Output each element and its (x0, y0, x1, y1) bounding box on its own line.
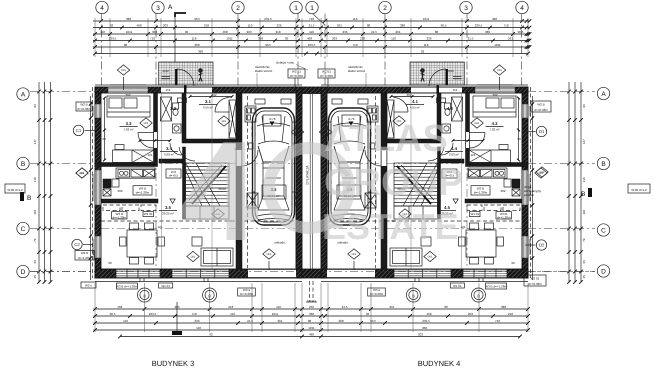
axis bubble 8 bottom (472, 288, 486, 302)
svg-text:D01: D01 (497, 69, 502, 72)
svg-text:D01: D01 (428, 256, 433, 259)
section mark A bottom (172, 302, 182, 335)
left dimension chain (33, 82, 52, 284)
window sill top wall b3 (110, 84, 146, 86)
svg-text:dylatacja: dylatacja (307, 300, 317, 303)
building BUDYNEK 3 (left) (76, 62, 304, 282)
svg-text:88: 88 (308, 319, 312, 323)
svg-text:d=+1.28m: d=+1.28m (474, 191, 488, 195)
svg-text:302: 302 (211, 93, 216, 97)
svg-text:4.2: 4.2 (447, 106, 453, 111)
svg-text:90: 90 (511, 261, 515, 265)
wardrobe closet b4 (387, 100, 394, 138)
svg-text:3.3: 3.3 (126, 121, 132, 126)
svg-text:7.02 m²: 7.02 m² (123, 128, 133, 132)
window marker O2 (526, 240, 547, 250)
svg-text:302: 302 (492, 93, 497, 97)
svg-text:1011: 1011 (494, 43, 501, 47)
window glazing top wall b4 (475, 88, 515, 90)
svg-text:pawilon: pawilon (524, 193, 535, 197)
garage door opening b4 (327, 269, 375, 278)
garage door opening b3 (248, 269, 296, 278)
svg-text:4: 4 (180, 112, 259, 271)
svg-text:-0.76: -0.76 (269, 117, 276, 121)
label box (76, 102, 92, 111)
shower b4 (452, 97, 463, 121)
garage storage box b3 (247, 193, 258, 208)
svg-text:BUDYNEK 3: BUDYNEK 3 (152, 359, 195, 368)
interior dim line bedroom b4 (518, 98, 520, 160)
kitchen hob b4 (469, 170, 480, 178)
room label 4.5 (438, 205, 456, 216)
label box (450, 283, 464, 288)
door swing bath b3 (170, 143, 182, 155)
svg-text:W2 e: W2 e (85, 284, 92, 288)
leader line oswietlenie left (256, 73, 258, 87)
svg-text:d=+1.28m: d=+1.28m (497, 215, 511, 219)
door swing bath b4 (441, 143, 453, 155)
door swing room 3.1 b3 (215, 98, 230, 113)
bottom extension lines (95, 283, 528, 332)
interior dim line corridor b3 (140, 140, 170, 142)
svg-text:DYLATACJA: DYLATACJA (306, 165, 310, 185)
svg-text:718: 718 (495, 319, 500, 323)
window glazing left wall b3 (96, 104, 98, 118)
room label 4.1 (406, 99, 424, 110)
sofa b4 (390, 248, 422, 266)
svg-text:110: 110 (123, 319, 128, 323)
porch step lines b3 (162, 76, 171, 78)
svg-text:388: 388 (501, 305, 506, 309)
svg-text:A: A (601, 91, 606, 98)
axis D overlay across garage doors (30, 271, 595, 273)
svg-text:236: 236 (194, 319, 199, 323)
axis bubble 8 bottom (138, 288, 152, 302)
car b4 (325, 108, 375, 225)
window opening left wall b3 (96, 104, 101, 118)
person figure b4 (421, 69, 425, 82)
svg-text:21.5: 21.5 (468, 36, 474, 40)
expansion joint dashed below (309, 281, 311, 302)
svg-text:468: 468 (426, 312, 431, 316)
svg-text:4.4: 4.4 (451, 146, 457, 151)
door marker diamond D01 b3 (212, 209, 224, 219)
exterior wall top b4 (321, 87, 528, 93)
window sill marks b3 (139, 278, 141, 282)
svg-text:110: 110 (391, 36, 396, 40)
kitchen wall b3 (101, 199, 158, 203)
party wall bridge bottom (302, 269, 321, 278)
door swing corridor b4 (428, 147, 444, 161)
insulation outline b3 (95, 84, 302, 86)
svg-text:110: 110 (33, 209, 37, 214)
stairs handrail b3 (192, 166, 226, 204)
svg-text:21.5: 21.5 (309, 23, 315, 27)
toilet b4 (445, 103, 451, 109)
grid bubble B right (597, 157, 609, 169)
svg-text:3.00 m²: 3.00 m² (449, 153, 459, 157)
upper cabinets dashed b4 (503, 205, 520, 211)
svg-text:A: A (21, 91, 26, 98)
svg-text:35: 35 (582, 275, 586, 279)
grid bubble 2 top x238 (232, 1, 244, 13)
door marker diamond W1 b4 (535, 168, 547, 178)
section mark A top (168, 4, 186, 17)
svg-text:388: 388 (485, 30, 490, 34)
svg-text:d=+0.38m: d=+0.38m (240, 292, 254, 296)
shower b3 (161, 97, 172, 121)
window glazing top wall b3 (108, 88, 148, 90)
svg-text:718: 718 (191, 312, 196, 316)
interior wall hall bottom b3 (159, 159, 185, 163)
svg-text:147: 147 (582, 139, 586, 144)
wheel stoppers b3 (255, 99, 265, 104)
svg-text:261: 261 (277, 319, 282, 323)
svg-text:468: 468 (307, 36, 312, 40)
svg-text:ATLAS: ATLAS (324, 118, 448, 160)
door swing bedroom b3 (138, 133, 154, 149)
svg-text:d=+0.5: d=+0.5 (169, 174, 179, 178)
svg-text:d=+0.38m: d=+0.38m (370, 292, 384, 296)
entry door leaf b3 (175, 69, 177, 86)
svg-text:90: 90 (102, 137, 106, 141)
svg-text:90: 90 (108, 261, 112, 265)
svg-text:121: 121 (147, 153, 152, 157)
beam dashed line right (327, 220, 522, 222)
svg-text:izolacja +ciep.: izolacja +ciep. (276, 61, 295, 65)
grid bubble A right (597, 87, 609, 99)
svg-text:C2: C2 (74, 242, 80, 247)
section mark B right (581, 188, 592, 198)
svg-text:D01: D01 (80, 172, 85, 175)
svg-text:302: 302 (500, 189, 505, 193)
label box (75, 251, 94, 261)
svg-text:1011: 1011 (226, 36, 233, 40)
svg-text:ESTATE: ESTATE (322, 206, 459, 247)
label box (485, 283, 507, 289)
watermark (180, 112, 463, 271)
svg-text:239.5: 239.5 (308, 43, 316, 47)
svg-text:110: 110 (276, 305, 281, 309)
bottom dimension chain (93, 305, 530, 339)
svg-text:1011: 1011 (272, 312, 279, 316)
interior dim line room31 b4 (391, 96, 433, 98)
room label 3.2 (170, 106, 176, 111)
leader line box to wall b4 (327, 78, 329, 87)
room label 4.2 (447, 106, 453, 111)
kitchen sink b4 (494, 170, 506, 178)
closet row bedroom b3 (113, 150, 155, 163)
door marker diamond D01 b4 (319, 127, 331, 137)
svg-text:4.55 m²: 4.55 m² (410, 106, 420, 110)
svg-text:92: 92 (110, 23, 114, 27)
building BUDYNEK 4 (right, mirrored) (319, 62, 547, 282)
kitchen label box b3 (133, 186, 152, 195)
room label 4.6 garage (344, 187, 356, 198)
stairs landing b3 (186, 206, 230, 219)
stairs landing b4 (394, 206, 438, 219)
kitchen label boxes below b4 (496, 212, 511, 219)
svg-text:368: 368 (309, 312, 314, 316)
entry threshold b4 (437, 86, 440, 94)
svg-text:4: 4 (100, 5, 104, 12)
garage service door gap b4 (382, 150, 387, 166)
exterior wall left b4 (522, 87, 528, 278)
door marker diamond D01 b4 (393, 116, 405, 126)
interior wall bedroom/hall b3 (154, 93, 158, 167)
svg-text:W2 B1: W2 B1 (322, 70, 331, 74)
svg-text:92: 92 (209, 332, 213, 336)
kitchen label box b4 (471, 186, 490, 195)
svg-text:118: 118 (192, 36, 197, 40)
svg-text:368: 368 (152, 30, 157, 34)
svg-text:88: 88 (124, 43, 128, 47)
window sill marks left wall b3 (92, 106, 94, 116)
exterior wall bottom b4 (321, 269, 528, 278)
window sill marks left wall b4 (529, 106, 531, 116)
svg-text:90.5: 90.5 (441, 23, 447, 27)
room label 3.3 (120, 121, 138, 132)
svg-text:1: 1 (294, 5, 298, 12)
window marker C2 (72, 239, 93, 249)
svg-text:368: 368 (422, 326, 427, 330)
door marker diamond B01 b4 (348, 249, 360, 259)
door marker diamond D01 b3 (218, 116, 230, 126)
door marker diamond K01 b3 (117, 65, 129, 75)
stairs wall b4 (438, 147, 441, 219)
door swing room 3.1 b4 (394, 98, 409, 113)
svg-text:218: 218 (228, 305, 233, 309)
garage storage box b4 (365, 193, 376, 208)
svg-text:388: 388 (400, 23, 405, 27)
svg-text:21.5: 21.5 (247, 319, 253, 323)
interior wall bedroom/hall b4 (466, 93, 470, 167)
door marker diamond B01 b3 (263, 249, 275, 259)
watermark ring 0 (269, 148, 349, 228)
svg-text:236: 236 (276, 23, 281, 27)
svg-text:468: 468 (117, 305, 122, 309)
svg-text:388: 388 (338, 319, 343, 323)
door swing garage b3 (242, 150, 258, 166)
svg-text:klatek schod.: klatek schod. (348, 69, 366, 73)
svg-text:718: 718 (503, 23, 508, 27)
door marker diamond D01 b4 (471, 118, 483, 128)
grid axis lines vertical (102, 14, 522, 270)
stairs handrail b4 (397, 166, 431, 204)
level box right garage (342, 115, 360, 126)
svg-text:B: B (27, 195, 31, 202)
entry door leaf b4 (446, 69, 448, 86)
svg-text:121: 121 (470, 153, 475, 157)
svg-text:368: 368 (198, 49, 203, 53)
svg-text:W2 01: W2 01 (531, 276, 540, 280)
entry porch b3 (159, 62, 213, 85)
svg-text:d=+0.38m: d=+0.38m (534, 108, 548, 112)
svg-text:2: 2 (236, 5, 240, 12)
svg-text:468: 468 (309, 332, 314, 336)
label box (159, 283, 173, 288)
label box (288, 69, 305, 78)
dining table b4 (466, 230, 496, 257)
svg-text:B: B (601, 161, 605, 168)
svg-text:261: 261 (395, 30, 400, 34)
label box (368, 288, 386, 296)
grid bubble 2 top x385 (379, 1, 391, 13)
svg-text:118: 118 (230, 312, 235, 316)
svg-text:66: 66 (33, 260, 37, 264)
dining table b3 (127, 230, 157, 257)
door marker diamond D01 b3 (291, 127, 303, 137)
svg-text:d=+0.38m: d=+0.38m (290, 74, 304, 78)
svg-text:151: 151 (165, 88, 170, 92)
garage fixture b3 (245, 106, 256, 122)
axis bubble 8 bottom (406, 288, 420, 302)
level box left garage (263, 115, 281, 126)
svg-text:C1: C1 (76, 128, 82, 133)
svg-text:C: C (601, 227, 606, 234)
window opening bottom wall b4 (463, 270, 507, 278)
room label 3.1 (199, 99, 217, 110)
svg-text:A: A (168, 4, 173, 11)
svg-text:218: 218 (204, 23, 209, 27)
grid bubble A left (17, 88, 29, 100)
svg-text:W3 B d=+1.28m: W3 B d=+1.28m (116, 285, 138, 289)
svg-text:W3 B d=+1.28m: W3 B d=+1.28m (485, 285, 507, 289)
grid bubble 3 top x466 (460, 1, 472, 13)
svg-text:d=+0.38m: d=+0.38m (528, 282, 542, 286)
svg-text:3.00 m²: 3.00 m² (164, 153, 174, 157)
svg-text:79: 79 (582, 238, 586, 242)
closet row bedroom b4 (469, 150, 511, 163)
svg-text:236: 236 (426, 36, 431, 40)
svg-text:7.02 m²: 7.02 m² (489, 128, 499, 132)
svg-text:203: 203 (332, 36, 337, 40)
svg-text:W.03 d=1.2: W.03 d=1.2 (631, 188, 647, 192)
svg-text:468: 468 (222, 30, 227, 34)
svg-text:218: 218 (275, 30, 280, 34)
section mark B left (20, 192, 31, 202)
svg-text:GROUP: GROUP (324, 162, 463, 204)
window glazing bottom wall b3 (116, 271, 160, 273)
door marker diamond K01 b4 (493, 65, 505, 75)
svg-text:21.5: 21.5 (371, 30, 377, 34)
svg-text:D01: D01 (121, 69, 126, 72)
bed b3 (107, 96, 150, 117)
svg-text:203: 203 (418, 332, 423, 336)
kitchen counter row b3 (116, 168, 155, 178)
car b3 (249, 108, 299, 225)
kitchen sink b3 (118, 170, 130, 178)
svg-text:D01: D01 (267, 253, 272, 256)
appliance column b3 (103, 179, 111, 188)
svg-text:W1 01: W1 01 (453, 284, 462, 288)
svg-text:D01: D01 (540, 171, 545, 174)
svg-text:W.03 d=1.2: W.03 d=1.2 (7, 188, 23, 192)
side table b4 (421, 237, 431, 246)
window glazing left wall b4 (526, 104, 528, 118)
grid bubble C right (597, 224, 609, 236)
washbasin b4 (442, 124, 451, 133)
svg-text:-0.02: -0.02 (447, 69, 454, 73)
interior wall bath b3 (182, 93, 186, 143)
wall dim chain right (531, 96, 534, 280)
stairs b4 (394, 163, 438, 206)
stair label box b3 (166, 169, 181, 178)
garage service door gap b3 (237, 150, 242, 166)
interior wall wardrobe b4 (387, 139, 437, 143)
level mark b4 (453, 199, 458, 203)
svg-text:O2: O2 (539, 243, 545, 248)
svg-text:261: 261 (337, 23, 342, 27)
label box (531, 101, 551, 112)
svg-text:118: 118 (353, 17, 358, 21)
kitchen fridge b4 (481, 170, 493, 178)
svg-text:203: 203 (468, 312, 473, 316)
interior wall wardrobe b3 (186, 139, 236, 143)
svg-text:66: 66 (582, 260, 586, 264)
svg-text:388: 388 (194, 43, 199, 47)
top dimension chain (93, 17, 531, 56)
svg-text:90.5: 90.5 (110, 312, 116, 316)
svg-text:718: 718 (309, 17, 314, 21)
bedroom door gap b4 (466, 132, 469, 148)
svg-text:88: 88 (367, 23, 371, 27)
right dimension chain (567, 82, 586, 284)
room label 3.4 (160, 146, 178, 157)
door swing entry b3 (177, 69, 194, 86)
top extension lines (95, 18, 528, 57)
svg-text:W2 B: W2 B (81, 251, 88, 255)
svg-text:92: 92 (285, 36, 289, 40)
svg-text:218: 218 (360, 36, 365, 40)
label box (238, 288, 256, 296)
svg-text:1011: 1011 (126, 30, 133, 34)
svg-text:110: 110 (33, 177, 37, 182)
svg-text:W1 01: W1 01 (144, 212, 153, 216)
grid bubble 1 top x312 (306, 1, 318, 13)
svg-text:odwodn.: odwodn. (274, 241, 286, 245)
interior wall hall bottom b4 (438, 159, 464, 163)
kitchen hob b3 (144, 170, 155, 178)
entry threshold b3 (184, 86, 187, 94)
label box (116, 283, 138, 289)
svg-text:35: 35 (33, 275, 37, 279)
svg-text:C: C (21, 226, 26, 233)
label box (5, 184, 25, 193)
svg-text:96: 96 (33, 104, 37, 108)
level mark b3 (170, 199, 175, 203)
party wall bridge top (302, 87, 321, 94)
grid bubble 3 top x158 (152, 1, 164, 13)
interior wall bedroom bottom b3 (95, 163, 154, 167)
svg-text:718: 718 (352, 43, 357, 47)
svg-text:3: 3 (156, 5, 160, 12)
entry porch b4 (410, 62, 464, 85)
interior wall bath b4 (437, 93, 441, 143)
svg-text:B: B (581, 191, 585, 198)
leader line oswietlenie right (365, 73, 367, 87)
svg-text:-0.02: -0.02 (162, 69, 169, 73)
svg-text:D01: D01 (295, 131, 300, 134)
label box (318, 69, 335, 78)
svg-text:96: 96 (582, 104, 586, 108)
kitchen wall b4 (465, 199, 522, 203)
grid bubble B left (17, 157, 29, 169)
svg-text:BUDYNEK 4: BUDYNEK 4 (418, 359, 461, 368)
svg-text:92: 92 (185, 30, 189, 34)
svg-text:368: 368 (492, 17, 497, 21)
kitchen fridge b3 (131, 170, 143, 178)
